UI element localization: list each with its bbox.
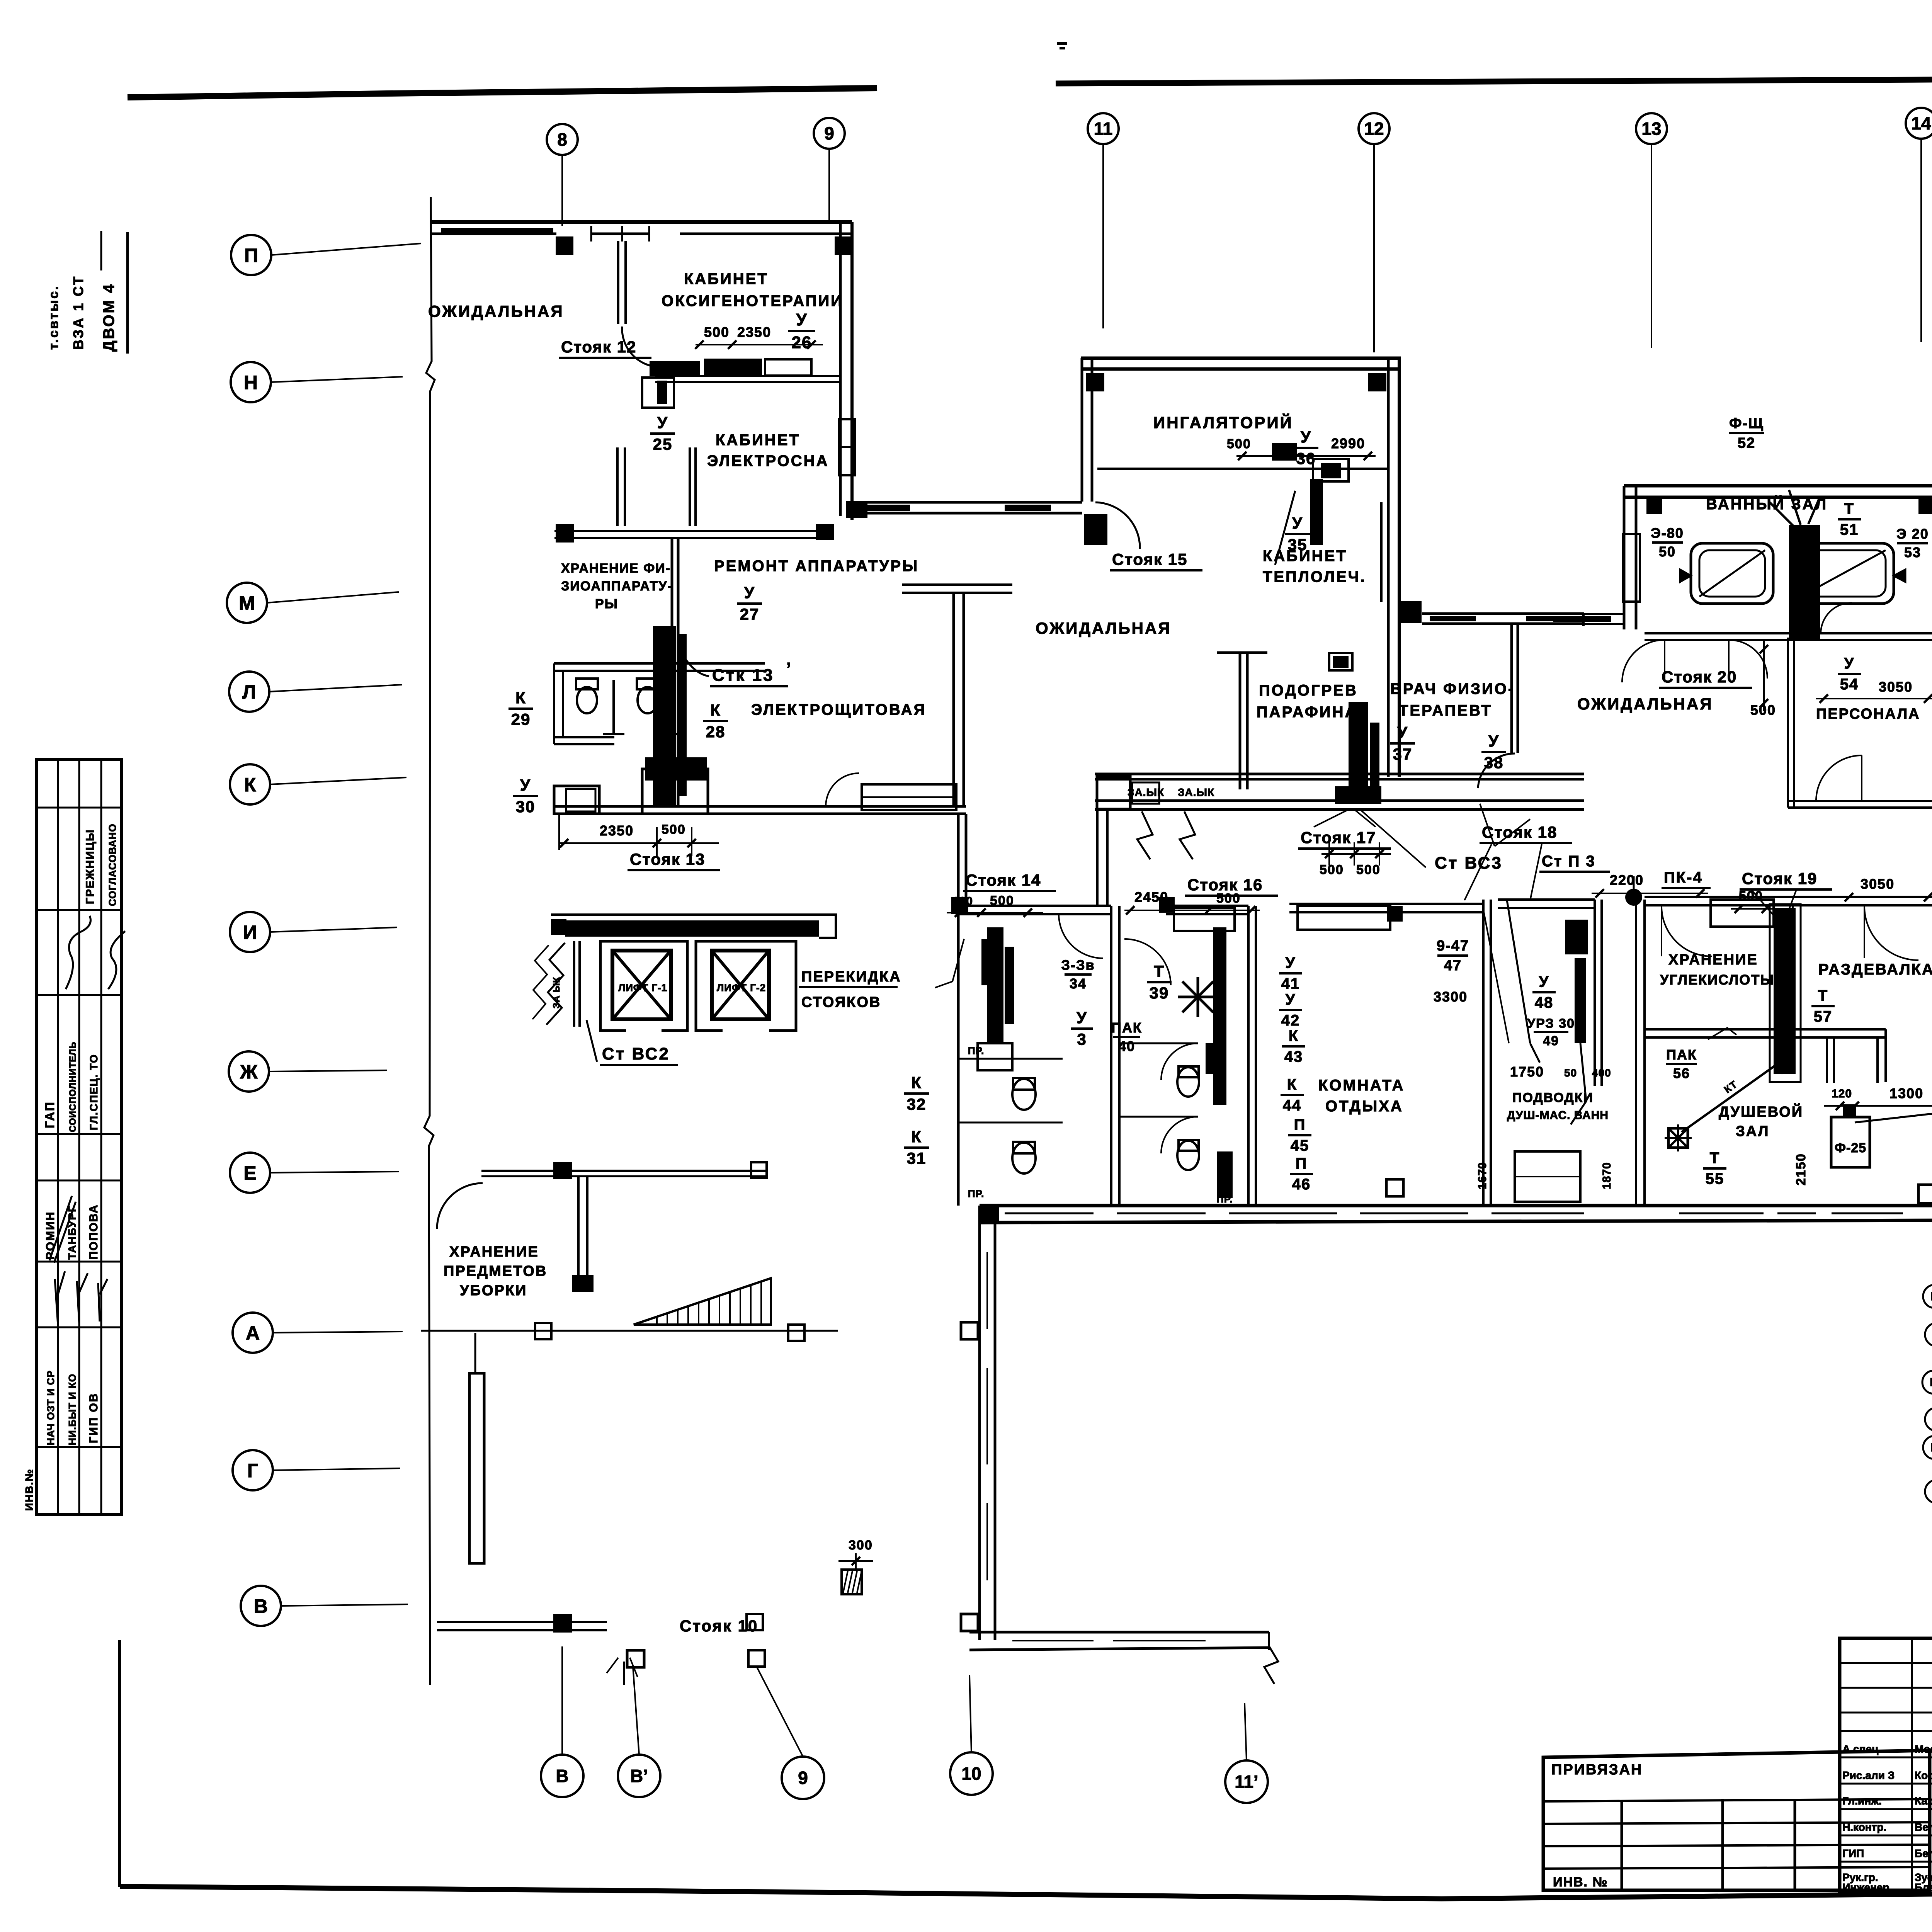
svg-text:ПР.: ПР. [968,1188,984,1199]
wall komnata otdyha top [1289,903,1483,905]
node axis circle В left [241,1586,281,1626]
svg-text:2350: 2350 [737,324,771,340]
svg-text:К: К [911,1073,922,1092]
svg-text:ПРЕДМЕТОВ: ПРЕДМЕТОВ [444,1263,547,1279]
svg-text:У: У [520,776,531,794]
wire axis line 11’ bottom [1245,1703,1247,1760]
wall stojak14/t39 divider [1110,906,1112,1206]
svg-text:ИНГАЛЯТОРИЙ: ИНГАЛЯТОРИЙ [1153,413,1293,432]
node bath tub 2 [1792,543,1894,604]
svg-text:39: 39 [1150,984,1169,1002]
wall podvodki top [1498,898,1595,901]
svg-text:Г: Г [247,1460,258,1481]
node axis circle Е left [230,1153,270,1193]
node k29 stall partitions [603,680,624,734]
svg-text:КАБИНЕТ: КАБИНЕТ [1263,548,1347,565]
wire axis leader П [271,243,421,255]
node break mark wall end [1264,1632,1278,1684]
node t39 toilets [1177,1067,1199,1097]
svg-text:37: 37 [1393,745,1413,763]
svg-text:ВАННЫЙ ЗАЛ: ВАННЫЙ ЗАЛ [1706,495,1828,513]
node stairs hatch [634,1278,771,1325]
wall hranenie/razdevalka divider riser [1774,908,1796,1074]
svg-text:Ф-25: Ф-25 [1835,1141,1866,1155]
node central riser band [653,626,676,808]
svg-text:2350: 2350 [600,823,634,838]
wall wing bottom wall [554,805,966,808]
node corridor break marks [1137,811,1153,859]
node toilets stojak14 [1012,1079,1036,1110]
node break marks elevator left [546,943,565,1025]
wall central corridor bottom [1095,799,1584,802]
svg-text:К: К [710,701,721,719]
node axis circle 10 bottom [950,1752,993,1795]
wall stojak14 partitions [958,1058,1063,1060]
node axis circle А left [233,1313,273,1353]
wall building bottom (central+right wings) [980,1204,1932,1207]
node podvodki box [1515,1151,1580,1202]
node top tick mark [1057,42,1067,45]
svg-text:ЗА ЫК: ЗА ЫК [551,977,562,1009]
wall oxygen cab interior vertical [617,241,619,324]
svg-text:ГИП ОВ: ГИП ОВ [87,1393,100,1443]
wire perekidka leader [935,939,964,988]
svg-text:У: У [1844,655,1855,672]
wall vanny zal bottom [1645,632,1932,634]
svg-text:ЭЛЕКТРОЩИТОВАЯ: ЭЛЕКТРОЩИТОВАЯ [751,701,926,718]
svg-text:РАЗДЕВАЛКА: РАЗДЕВАЛКА [1818,961,1932,978]
node axis circle Н left [231,362,271,402]
node podvodki riser blobs [1565,920,1588,954]
svg-text:Ф-Щ: Ф-Щ [1729,415,1764,432]
svg-text:1870: 1870 [1600,1162,1613,1189]
svg-text:14: 14 [1911,113,1931,133]
svg-text:500: 500 [1739,889,1763,903]
node axis circle 11 top [1088,113,1119,144]
svg-text:ДУШ-МАС. ВАНН: ДУШ-МАС. ВАНН [1507,1109,1609,1122]
node left stamp table frame [37,759,122,1515]
wire stojak19 riser leader [1781,904,1793,1074]
node black valve circle [1625,889,1642,906]
svg-text:ЛИФТ Г-1: ЛИФТ Г-1 [618,982,667,993]
svg-text:ПАРАФИНА: ПАРАФИНА [1257,704,1357,721]
node key plan circled letters left [1923,1285,1932,1308]
svg-text:П: П [1930,1290,1932,1303]
svg-text:1750: 1750 [1510,1064,1544,1080]
svg-text:Беледницкий: Беледницкий [1915,1847,1932,1859]
svg-text:КАБИНЕТ: КАБИНЕТ [716,432,800,449]
wire leader iz podvala [1855,1106,1932,1122]
svg-text:54: 54 [1840,676,1859,693]
wall corridor right segment [1422,612,1584,615]
wall personal left [1787,638,1789,808]
svg-text:ХРАНЕНИЕ: ХРАНЕНИЕ [449,1244,539,1260]
wire axis leader В [281,1604,408,1606]
svg-text:500: 500 [1320,862,1344,877]
svg-text:Н.контр.: Н.контр. [1842,1821,1886,1833]
wall corner post right wing bottom [1918,1185,1932,1203]
svg-text:46: 46 [1292,1176,1311,1193]
node axis circle 9 top [814,118,845,149]
node door arc t39 [1124,939,1171,985]
node door arc oxygen cab [622,327,659,367]
wire axis leader Е [270,1172,399,1173]
svg-text:УРЗ 30: УРЗ 30 [1527,1016,1575,1031]
svg-text:32: 32 [907,1095,927,1113]
svg-text:РОМИН: РОМИН [44,1211,57,1260]
node axis circle Ж left [229,1051,269,1092]
svg-text:И: И [243,922,257,943]
wire left stamp pencil mark [49,1196,76,1263]
svg-text:48: 48 [1535,994,1554,1011]
node dimension 500 500 stojak17 [1321,853,1391,855]
svg-text:ЗА.ЫК: ЗА.ЫК [1178,786,1214,798]
svg-text:42: 42 [1281,1012,1300,1029]
node door arc vanny right small [1821,603,1852,633]
svg-text:11: 11 [1094,119,1113,139]
wall razdevalka top [1789,896,1932,898]
wall lower-left wing bottom [969,1631,1269,1634]
wall corridor storage top [481,1170,768,1172]
svg-text:НИ.БЫТ И КО: НИ.БЫТ И КО [66,1374,78,1445]
svg-text:30: 30 [516,798,536,816]
wall k29 toilet room [554,662,765,665]
svg-text:У: У [1077,1009,1087,1027]
svg-text:50: 50 [1564,1067,1577,1079]
svg-text:Стояк 15: Стояк 15 [1112,550,1187,568]
svg-text:Мостовой: Мостовой [1915,1743,1932,1755]
wire axis line 14 [1920,139,1922,342]
node u30 room box [554,786,599,814]
svg-text:А: А [246,1322,260,1344]
svg-text:Стояк 17: Стояк 17 [1301,828,1376,847]
svg-text:43: 43 [1284,1048,1303,1065]
wall B-axis lower wall [437,1621,607,1623]
svg-text:36: 36 [1296,449,1316,468]
svg-text:К: К [244,774,256,796]
wall ingalatory right [1387,358,1390,777]
wall remont left vertical [671,538,673,806]
svg-text:Стояк 20: Стояк 20 [1662,668,1737,686]
svg-text:ПР.: ПР. [968,1045,984,1056]
wall electroshield right wall [952,593,955,806]
svg-text:Стояк 12: Стояк 12 [561,338,636,356]
node axis circle К left [230,764,270,804]
svg-text:У: У [1539,973,1549,990]
wall oxygen cab interior horizontal [655,375,840,377]
wall storage right vertical [577,1176,580,1288]
svg-text:Инженер: Инженер [1842,1881,1889,1893]
svg-text:Коростелев: Коростелев [1915,1769,1932,1781]
node t39 bottom fixtures [1217,1151,1233,1198]
svg-text:Гл.инж.: Гл.инж. [1842,1795,1882,1807]
svg-text:ВЗА 1 СТ: ВЗА 1 СТ [70,275,86,350]
wire axis leader А [273,1332,403,1333]
wire top border right segment [1056,80,1932,85]
node axis circle И left [230,912,270,952]
wire shower diagonal pipe [1682,1056,1789,1132]
svg-text:1300: 1300 [1889,1085,1923,1101]
svg-text:ТЕРАПЕВТ: ТЕРАПЕВТ [1399,702,1492,719]
svg-text:ПР.: ПР. [1216,1193,1233,1205]
svg-text:т.свтыс.: т.свтыс. [46,284,61,350]
wire axis leader Г [273,1468,400,1470]
svg-text:25: 25 [653,435,673,453]
node shower symbol [1668,1128,1688,1148]
wall elevator hall left [573,941,575,1027]
wall right wing left [1623,486,1626,629]
wire bottom-left sheet border vertical [118,1640,121,1887]
svg-text:ОКСИГЕНОТЕРАПИИ: ОКСИГЕНОТЕРАПИИ [662,293,844,310]
wire axis leader И [270,927,397,932]
svg-text:КАБИНЕТ: КАБИНЕТ [684,270,769,287]
svg-text:ГИП: ГИП [1842,1847,1864,1859]
svg-text:СОГЛАСОВАНО: СОГЛАСОВАНО [107,824,118,906]
wall ingalatory top [1081,357,1401,360]
svg-text:9: 9 [798,1768,808,1788]
wire axis line 13 [1651,144,1652,348]
svg-text:ПРИВЯЗАН: ПРИВЯЗАН [1551,1762,1643,1778]
wall connection corridor left of vanny [1546,613,1623,615]
wire axis leader Н [271,377,403,382]
svg-text:З-Зв: З-Зв [1061,957,1095,973]
svg-text:ОТДЫХА: ОТДЫХА [1325,1098,1403,1115]
wall upper-left wing top [431,220,852,224]
svg-text:Стояк 19: Стояк 19 [1742,869,1817,888]
svg-text:47: 47 [1444,957,1462,974]
svg-text:КОМНАТА: КОМНАТА [1318,1077,1405,1094]
svg-text:49: 49 [1543,1034,1559,1048]
node axis circle Г left [233,1450,273,1490]
wall dush zal top [1645,1028,1886,1031]
svg-text:ПАК: ПАК [1111,1020,1142,1036]
node k29 toilets [577,687,597,713]
svg-text:Стояк 18: Стояк 18 [1482,823,1557,841]
wall room band left vertical [957,814,960,1206]
svg-text:300: 300 [849,1538,873,1553]
svg-text:ПЕРСОНАЛА: ПЕРСОНАЛА [1816,706,1920,722]
node door arc fizioterapevt [1478,753,1515,788]
svg-text:2450: 2450 [1134,889,1168,905]
wire top border left segment [128,88,877,97]
svg-text:51: 51 [1840,521,1859,538]
node column rect [469,1373,484,1563]
wall elevator hall top [551,913,836,916]
svg-text:26: 26 [792,333,812,352]
node vanny central riser [1789,525,1820,641]
svg-text:У: У [1301,428,1311,446]
svg-text:10: 10 [961,1764,981,1784]
node door arc stojak14 room [1059,914,1103,958]
svg-text:’: ’ [786,659,792,678]
wire axis line 11 [1102,144,1104,328]
svg-text:Рис.али З: Рис.али З [1842,1769,1895,1781]
wire axis line В’ bottom [633,1667,639,1755]
node stojak14 riser band [987,927,1003,1043]
svg-text:57: 57 [1814,1008,1833,1025]
wire axis line 9 bottom [757,1667,803,1757]
svg-text:Благгланина: Благгланина [1915,1881,1932,1893]
svg-text:ОЖИДАЛЬНАЯ: ОЖИДАЛЬНАЯ [428,302,564,320]
node left stamp signatures 1 [66,916,91,989]
wall upper-left wing lower-right step [902,583,1012,586]
svg-text:ПЕРЕКИДКА: ПЕРЕКИДКА [801,969,901,985]
node stk13p label [684,657,709,676]
svg-text:400: 400 [1592,1067,1611,1079]
svg-text:ЭЛЕКТРОСНА: ЭЛЕКТРОСНА [707,452,829,469]
svg-text:ПОДВОДКИ: ПОДВОДКИ [1512,1090,1594,1105]
svg-text:9-47: 9-47 [1437,938,1469,954]
node door arc hranenie [1662,906,1712,956]
svg-text:ПОДОГРЕВ: ПОДОГРЕВ [1259,682,1358,699]
wall t39/komnata divider [1247,906,1250,1206]
wire axis line 8 [561,155,563,226]
wire axis leader Ж [269,1070,387,1071]
node axis circle 14 top [1906,108,1932,139]
svg-text:Ст ВС2: Ст ВС2 [602,1044,670,1063]
svg-text:Ст ВС3: Ст ВС3 [1435,854,1503,872]
node axis circle 12 top [1359,113,1389,144]
svg-text:100: 100 [952,895,973,908]
svg-text:500: 500 [662,822,686,837]
svg-text:ДВОМ 4: ДВОМ 4 [100,283,117,352]
svg-text:ЛИФТ Г-2: ЛИФТ Г-2 [717,982,766,993]
svg-text:52: 52 [1738,435,1755,451]
svg-text:50: 50 [1659,544,1676,560]
node small box near B axis [627,1650,644,1667]
svg-text:ХРАНЕНИЕ ФИ-: ХРАНЕНИЕ ФИ- [561,561,671,576]
svg-text:П: П [244,245,258,266]
wall below stairs vertical [474,1333,476,1373]
svg-text:Н: Н [244,372,258,393]
svg-text:1670: 1670 [1476,1162,1489,1189]
svg-text:8: 8 [557,129,567,150]
wall remont top [554,530,822,532]
svg-text:Ж: Ж [240,1061,258,1083]
wire building left boundary line [424,197,435,1685]
svg-text:500: 500 [990,893,1014,908]
svg-text:ХРАНЕНИЕ: ХРАНЕНИЕ [1668,952,1758,968]
node window box upper-left right wall [839,419,855,475]
wall right wing top [1624,484,1932,488]
wire axis leader М [267,592,399,603]
wall personal bottom [1788,800,1932,802]
wall ozhidalnaya right boundary walls [1582,614,1585,626]
svg-text:28: 28 [706,723,726,741]
svg-text:Велединский: Велединский [1915,1821,1932,1833]
wall central corridor top [1095,773,1584,776]
wall lower-left wing left [978,1206,981,1640]
svg-text:У: У [796,310,807,329]
node bath tub 1 [1691,543,1773,604]
svg-text:П: П [1294,1116,1306,1133]
svg-text:2200: 2200 [1610,872,1644,888]
wall upper-left wing right [839,222,842,516]
wire axis line В bottom [561,1646,563,1755]
svg-text:А.спец.: А.спец. [1842,1743,1881,1755]
svg-text:У: У [1488,732,1499,750]
wire stairs base line [421,1330,838,1332]
svg-text:Л: Л [242,681,256,703]
svg-text:В: В [1930,1441,1932,1454]
node stojak 12 riser fixtures [650,361,700,376]
svg-text:СОИСПОЛНИТЕЛЬ: СОИСПОЛНИТЕЛЬ [68,1042,78,1132]
svg-text:РЕМОНТ АППАРАТУРЫ: РЕМОНТ АППАРАТУРЫ [714,558,919,575]
svg-text:У: У [1397,723,1408,742]
svg-text:12: 12 [1364,119,1384,139]
wall corridor to central block [867,501,1082,504]
wall teplolech interior horizontal [1097,468,1387,470]
svg-text:38: 38 [1484,753,1504,772]
wall electrosna interior stubs [616,447,619,526]
svg-text:3300: 3300 [1434,989,1468,1005]
svg-text:45: 45 [1291,1137,1310,1154]
svg-text:500: 500 [704,324,730,340]
svg-text:9: 9 [824,123,834,143]
node stojak 15 riser fixtures [1272,443,1297,461]
wall corner step right of teplolech [1398,601,1422,623]
svg-text:ГРЕЖНИЦЫ: ГРЕЖНИЦЫ [84,829,97,904]
wall t39 partition [1119,1043,1198,1044]
svg-text:Т: Т [1710,1150,1720,1167]
node axis circle П left [231,235,271,275]
svg-text:53: 53 [1904,544,1921,560]
svg-text:Стояк 14: Стояк 14 [966,871,1041,889]
svg-text:К: К [515,689,526,707]
node axis circle 8 top [547,124,578,155]
svg-text:Т: Т [1844,500,1854,517]
wall hranenie top [1645,896,1789,898]
svg-text:ПАК: ПАК [1666,1047,1697,1063]
node f25 box [1831,1117,1870,1167]
svg-text:К: К [911,1128,922,1146]
svg-text:13: 13 [1641,119,1661,139]
svg-text:ИНВ. №: ИНВ. № [1553,1875,1608,1889]
wire st vs2 leader [587,1020,597,1062]
wall fizioterapevt left [1510,624,1513,753]
svg-text:44: 44 [1283,1097,1302,1114]
svg-text:ГАП: ГАП [43,1101,57,1128]
svg-text:29: 29 [511,710,531,728]
node t39 star symbol [1178,977,1218,1017]
svg-text:Ст П 3: Ст П 3 [1542,853,1596,870]
svg-text:34: 34 [1070,976,1087,992]
svg-text:НАЧ ОЗТ И СР: НАЧ ОЗТ И СР [45,1370,56,1445]
wire stojak19 v-leader [1750,889,1797,920]
svg-text:11’: 11’ [1235,1772,1258,1792]
wall stojak14 room top [956,905,1111,907]
wire axis line 10 bottom [969,1675,971,1752]
svg-text:РЫ: РЫ [595,597,618,611]
svg-text:Стояк 13: Стояк 13 [630,850,705,868]
node door arc razdevalka [1864,906,1918,960]
node names table [1840,1638,1932,1893]
svg-text:27: 27 [740,605,760,623]
wire axis line 9 [828,149,830,220]
svg-text:Стк 13: Стк 13 [712,666,774,685]
node small squares bottom [747,1614,763,1630]
node left stamp signatures 2 [55,1271,65,1325]
svg-text:УГЛЕКИСЛОТЫ: УГЛЕКИСЛОТЫ [1660,972,1775,988]
svg-text:500: 500 [1227,437,1251,451]
svg-text:ВРАЧ ФИЗИО-: ВРАЧ ФИЗИО- [1390,680,1515,697]
svg-text:У: У [1286,991,1296,1008]
node corridor window band left [1097,777,1130,809]
svg-text:40: 40 [1118,1038,1135,1054]
wall teplolech right [1380,502,1383,602]
node door arc personal [1816,755,1862,801]
wall podogrev left vertical [1239,653,1242,789]
